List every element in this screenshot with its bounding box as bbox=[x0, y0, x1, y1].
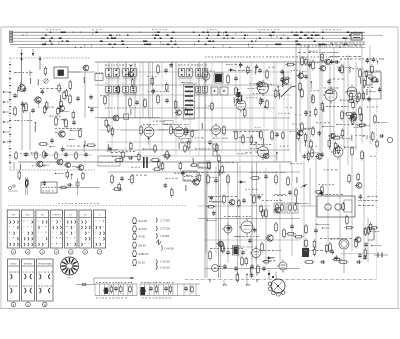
svg-text:4T7: 4T7 bbox=[105, 83, 108, 85]
node tun-5 bbox=[63, 119, 65, 124]
valve V15 bbox=[210, 123, 221, 137]
capacitor C7 bbox=[169, 63, 173, 68]
svg-text:AM: AM bbox=[26, 214, 29, 217]
svg-text:EABC 80: EABC 80 bbox=[139, 253, 150, 256]
svg-text:EF 89: EF 89 bbox=[139, 236, 146, 239]
capacitor C6 bbox=[90, 107, 94, 112]
resistor R104 bbox=[370, 226, 379, 229]
resistor R5 bbox=[65, 118, 68, 129]
lower centre vertical wiring bbox=[206, 163, 292, 266]
anode bend wire bbox=[281, 86, 296, 97]
coil L27 bbox=[240, 95, 243, 101]
mid rail bbox=[95, 84, 292, 86]
text row above main bbox=[205, 56, 338, 59]
resistor R3 bbox=[22, 104, 25, 113]
legend valve ECC 85 bbox=[133, 217, 148, 223]
bottom rail centre bbox=[205, 267, 300, 269]
coil L3 bbox=[83, 140, 86, 146]
node bel-5 bbox=[246, 274, 248, 281]
dark blob lc bbox=[233, 246, 239, 256]
resistor R37 bbox=[260, 130, 263, 140]
text above dashed bbox=[58, 202, 99, 205]
wire tuner out bbox=[68, 72, 95, 118]
legend code C 57 008 bbox=[156, 226, 170, 231]
resistor R61 bbox=[374, 114, 377, 124]
resistor R91 bbox=[222, 244, 225, 254]
trimmer C3 bbox=[44, 79, 48, 83]
label if2-16 bbox=[159, 128, 168, 131]
left edge terminals bbox=[3, 91, 9, 143]
coil L28 bbox=[282, 72, 285, 78]
legend code C 77 800 bbox=[156, 218, 170, 223]
resistor R14 bbox=[185, 107, 188, 116]
transistor Q8 bbox=[296, 73, 303, 79]
node ctr-11 bbox=[277, 86, 279, 92]
svg-text:EM 80: EM 80 bbox=[139, 244, 147, 247]
wire rlo-19 bbox=[316, 224, 329, 225]
wire rt-66 bbox=[309, 51, 317, 52]
capacitor C26 bbox=[290, 224, 294, 229]
long wires centre bbox=[240, 62, 296, 162]
node rt-64 bbox=[377, 61, 379, 65]
IF ceramic filter ladder bbox=[184, 84, 195, 119]
capacitor C16 bbox=[317, 131, 321, 136]
resistor R62 bbox=[169, 285, 172, 294]
node ctr2-2 bbox=[255, 142, 257, 149]
driver transformer box bbox=[183, 171, 197, 181]
resistor R108 bbox=[369, 222, 372, 232]
capacitor C26 bbox=[163, 183, 167, 188]
resistor R55 bbox=[305, 224, 308, 235]
label loc-25 bbox=[245, 188, 257, 191]
resistor R41 bbox=[275, 174, 278, 185]
resistor R32 bbox=[259, 97, 262, 106]
twin socket circle bbox=[212, 265, 219, 272]
coil L13 bbox=[278, 93, 281, 99]
transistor Q3 bbox=[174, 110, 181, 116]
resistor R111 bbox=[26, 178, 29, 187]
main band vertical wiring bbox=[98, 62, 288, 162]
switch strip left terminal block bbox=[10, 31, 13, 42]
resistor R39 bbox=[227, 174, 230, 185]
resistor R68 bbox=[332, 136, 342, 139]
valve V6 bbox=[323, 87, 337, 104]
resistor R16 bbox=[174, 100, 177, 110]
label mid-15 bbox=[131, 166, 139, 169]
coil L19 bbox=[348, 67, 351, 73]
resistor R11 bbox=[144, 98, 147, 109]
capacitor C34 bbox=[184, 286, 188, 291]
resistor R83 bbox=[286, 233, 296, 236]
legend valve EABC 80 bbox=[133, 250, 149, 256]
resistor R65 bbox=[59, 186, 68, 189]
capacitor C36 bbox=[67, 183, 72, 187]
coil L32 bbox=[295, 196, 298, 202]
IF transformer T1 bbox=[105, 65, 120, 80]
wire tun-40 bbox=[88, 107, 98, 108]
resistor R99 bbox=[367, 226, 370, 235]
resistor R82 bbox=[207, 205, 216, 208]
resistor R106 bbox=[346, 215, 349, 225]
capacitor C10 bbox=[185, 129, 189, 134]
resistor R75 bbox=[153, 168, 162, 171]
resistor R100 bbox=[332, 258, 342, 261]
filter box bbox=[287, 203, 298, 213]
coil L5 bbox=[34, 126, 37, 132]
resistor R1 bbox=[63, 90, 66, 100]
resistor R23 bbox=[242, 134, 245, 145]
resistor R40 bbox=[250, 177, 261, 180]
resistor R25 bbox=[107, 124, 110, 133]
label loc-4 bbox=[250, 193, 263, 196]
strip labels bbox=[46, 29, 364, 46]
capacitor C20 bbox=[327, 79, 331, 84]
capacitor C9 bbox=[234, 76, 238, 81]
mode switch box PHONOGRAM bbox=[37, 259, 54, 307]
resistor R24 bbox=[271, 130, 274, 141]
IF transformer T6 bbox=[122, 83, 137, 96]
strip dark part 1 bbox=[104, 288, 108, 294]
bottom strip lead bbox=[76, 283, 95, 285]
wire blt-11 bbox=[55, 173, 64, 174]
coil L22 bbox=[311, 95, 314, 101]
wire rt-54 bbox=[370, 91, 376, 92]
antenna input arrows bbox=[20, 56, 41, 84]
resistor R47 bbox=[275, 222, 278, 233]
label if2-3 bbox=[213, 137, 228, 140]
resistor R3 bbox=[69, 94, 72, 105]
transistor Q14 bbox=[256, 82, 263, 88]
preamp box bbox=[41, 182, 57, 193]
capacitor C18 bbox=[350, 114, 354, 119]
wire rlo-24 bbox=[371, 245, 382, 246]
resistor R6 bbox=[43, 105, 46, 115]
tuner bottom parts bbox=[38, 138, 54, 159]
resistor R52 bbox=[311, 148, 314, 159]
resistor R25 bbox=[301, 56, 304, 67]
label rt-40 bbox=[305, 114, 311, 117]
transistor Q4 bbox=[127, 71, 134, 77]
label tun-0 bbox=[57, 118, 63, 121]
rail lc3 bbox=[205, 239, 300, 241]
valve V9 bbox=[239, 219, 253, 236]
resistor R56 bbox=[352, 101, 355, 110]
capacitor C16 bbox=[304, 110, 308, 115]
resistor R48 bbox=[321, 102, 324, 112]
resistor R102 bbox=[307, 151, 310, 161]
resistor R95 bbox=[364, 227, 367, 236]
node tun-28 bbox=[38, 100, 40, 108]
IF rail lower bbox=[95, 117, 160, 119]
resistor R17 bbox=[151, 76, 154, 86]
switch strip right box S1 bbox=[351, 33, 362, 40]
elbow wiring right bbox=[358, 228, 374, 260]
capacitor C2 bbox=[89, 94, 93, 99]
capacitor C2 bbox=[31, 108, 35, 113]
wire rt-1 bbox=[377, 122, 387, 123]
resistor R26 bbox=[312, 60, 315, 71]
resistor R13 bbox=[227, 74, 230, 85]
resistor R10 bbox=[129, 97, 132, 108]
coil L2 bbox=[19, 82, 22, 88]
wire rt-15 bbox=[322, 126, 334, 127]
resistor R28 bbox=[187, 140, 190, 150]
resistor R15 bbox=[170, 125, 173, 136]
label loc-8 bbox=[264, 259, 276, 262]
valve V2 bbox=[172, 125, 184, 140]
svg-text:EL 84: EL 84 bbox=[139, 262, 146, 265]
capacitor C23 bbox=[264, 174, 268, 179]
svg-text:ECH 81: ECH 81 bbox=[139, 228, 148, 231]
resistor R42 bbox=[287, 176, 290, 187]
below-line lamp 1 bbox=[223, 280, 227, 286]
resistor R38 bbox=[299, 82, 302, 92]
oscillator coil L2 bbox=[59, 95, 62, 108]
capacitor C33 bbox=[164, 286, 168, 291]
tuner label bbox=[14, 72, 32, 121]
svg-text:STEREO: STEREO bbox=[24, 263, 33, 265]
resistor R52 bbox=[350, 91, 353, 101]
transistor Q17 bbox=[228, 199, 235, 205]
svg-text:C 30 002: C 30 002 bbox=[160, 266, 170, 269]
resistor R60 bbox=[371, 64, 374, 74]
svg-text:MONO: MONO bbox=[10, 263, 17, 265]
svg-text:4T7: 4T7 bbox=[178, 65, 181, 67]
labels lower centre bbox=[208, 196, 282, 237]
capacitor C21 bbox=[120, 176, 124, 181]
diode D3 bbox=[266, 256, 274, 259]
mains row bbox=[304, 260, 361, 264]
resistor R8 bbox=[157, 64, 160, 75]
capacitor C27 bbox=[226, 250, 230, 255]
wire rlo-30 bbox=[311, 152, 319, 153]
resistor R46 bbox=[304, 133, 307, 143]
legend bracket code bbox=[156, 240, 174, 251]
capacitor C20 bbox=[128, 156, 133, 160]
resistor R1 bbox=[14, 106, 17, 117]
switch table column STEREO bbox=[50, 210, 62, 254]
wire rt-17 bbox=[344, 147, 356, 148]
wires right mid bbox=[330, 62, 356, 150]
detector boxes bbox=[211, 87, 228, 95]
motor circle bbox=[339, 239, 349, 273]
node rt-61 bbox=[311, 81, 313, 89]
edge terminals bbox=[9, 64, 11, 163]
resistor R67 bbox=[321, 52, 324, 62]
wire loc-16 bbox=[295, 203, 309, 204]
label ctr-9 bbox=[248, 87, 255, 90]
resistor R43 bbox=[365, 70, 368, 79]
resistor R105 bbox=[313, 239, 316, 249]
resistor R107 bbox=[321, 185, 324, 195]
label row tuner bbox=[40, 88, 82, 129]
label ctr2-8 bbox=[280, 145, 289, 148]
speaker cap C19 bbox=[379, 134, 393, 142]
resistor R72 bbox=[179, 161, 182, 170]
IF transformer T4 bbox=[195, 65, 208, 80]
node tun-32 bbox=[83, 145, 85, 152]
capacitor C23 bbox=[236, 98, 240, 103]
capacitor C12 bbox=[280, 77, 284, 82]
label if2-7 bbox=[195, 137, 204, 140]
switch contacts left bbox=[8, 185, 18, 191]
IF transformer T7 bbox=[195, 83, 208, 96]
labels right lower bbox=[304, 238, 352, 251]
strip labels2 bbox=[96, 282, 174, 298]
resistor R92 bbox=[364, 248, 367, 258]
resistor R44 bbox=[362, 91, 365, 100]
transistor Q1 bbox=[17, 85, 25, 92]
coil L34 bbox=[363, 228, 366, 234]
switch table column AM bbox=[22, 210, 34, 254]
resistor R57 bbox=[334, 141, 337, 150]
label loc-11 bbox=[239, 246, 252, 249]
label rt-4 bbox=[367, 106, 379, 109]
detector label bbox=[226, 63, 242, 66]
resistor R16 bbox=[223, 125, 226, 136]
resistor R69 bbox=[282, 77, 291, 80]
IF strip wiring bbox=[109, 62, 205, 118]
resistor R58 bbox=[354, 112, 357, 121]
capacitor C18 bbox=[372, 57, 376, 62]
resistor R10 bbox=[57, 107, 60, 116]
detector transformer dark box bbox=[214, 73, 223, 83]
coil L14 bbox=[281, 81, 284, 87]
resistor R40 bbox=[376, 139, 379, 148]
right bottom wires bbox=[368, 72, 381, 262]
coil L1 bbox=[37, 79, 40, 85]
resistor R63 bbox=[328, 138, 331, 148]
coil L35 bbox=[19, 164, 22, 170]
wires head bbox=[300, 168, 317, 206]
resistor R89 bbox=[245, 257, 248, 266]
dark box centre bbox=[237, 92, 241, 97]
valve V14 bbox=[277, 260, 287, 273]
label if2-22 bbox=[119, 150, 136, 153]
node ctr3-0 bbox=[267, 85, 269, 91]
label mid-5 bbox=[128, 178, 134, 181]
capacitor C25 bbox=[181, 170, 185, 175]
label if2-2 bbox=[195, 147, 210, 150]
wire rlo-25 bbox=[322, 227, 330, 228]
label blt-2 bbox=[32, 164, 46, 167]
capacitor C14 bbox=[338, 67, 342, 72]
coil L11 bbox=[277, 90, 280, 96]
svg-text:C 44 008: C 44 008 bbox=[164, 248, 174, 251]
transistor Q21 bbox=[76, 165, 83, 171]
transistor Q9 bbox=[36, 161, 44, 167]
mode switch box MONO bbox=[8, 259, 20, 307]
preamp out wire bbox=[57, 187, 100, 189]
label rlo-22 bbox=[370, 230, 379, 233]
capacitor C14 bbox=[275, 132, 279, 137]
transistor Q11 bbox=[64, 163, 71, 168]
resistor R19 bbox=[239, 93, 242, 104]
resistor R38 bbox=[207, 174, 210, 185]
resistor R30 bbox=[111, 127, 114, 137]
resistor R35 bbox=[114, 159, 125, 162]
svg-text:PHONOGRAM: PHONOGRAM bbox=[38, 262, 52, 265]
capacitor C21 bbox=[378, 87, 382, 92]
dark box right low bbox=[302, 248, 309, 257]
svg-text:ECC 85: ECC 85 bbox=[139, 220, 148, 223]
cathode resistor R17b bbox=[184, 144, 187, 153]
resistor R113 bbox=[82, 172, 85, 181]
label tun-10 bbox=[46, 106, 54, 109]
legend valve EM 80 bbox=[133, 242, 146, 248]
resistor R76 bbox=[190, 164, 199, 167]
capacitor C32 bbox=[149, 286, 153, 291]
wire mid-0 bbox=[186, 175, 192, 176]
bottom strip rails bbox=[95, 284, 200, 296]
legend extra codes bbox=[156, 260, 170, 270]
resistor R78 bbox=[161, 162, 164, 171]
resistor R71 bbox=[118, 182, 121, 191]
svg-text:4T7: 4T7 bbox=[195, 65, 198, 67]
resistor R59 bbox=[120, 285, 123, 294]
strip dark part 2 bbox=[141, 287, 146, 295]
capacitor C11 bbox=[208, 140, 212, 145]
resistor R24 bbox=[105, 118, 108, 128]
chassis rail bbox=[18, 161, 292, 163]
label if2-18 bbox=[111, 151, 122, 154]
svg-text:PU: PU bbox=[69, 215, 72, 217]
resistor R33 bbox=[285, 63, 295, 66]
label blt-6 bbox=[66, 165, 81, 168]
transistor Q20 bbox=[315, 154, 322, 160]
resistor R13 bbox=[211, 101, 214, 111]
resistor R88 bbox=[238, 199, 241, 208]
capacitor C32 bbox=[227, 225, 231, 230]
wire loc-27 bbox=[268, 257, 275, 258]
node ctr2-5 bbox=[276, 152, 278, 160]
label rt-3 bbox=[352, 67, 363, 70]
labels centre bbox=[233, 70, 271, 145]
label loc-5 bbox=[221, 161, 234, 164]
supply rail bbox=[100, 117, 290, 119]
resistor R49 bbox=[209, 250, 212, 261]
capacitor C28 bbox=[212, 211, 216, 216]
transistor Q18 bbox=[354, 237, 361, 243]
wire blt-9 bbox=[42, 164, 50, 165]
capacitor C22 bbox=[352, 111, 356, 116]
capacitor C25 bbox=[248, 238, 252, 243]
resistor R27 bbox=[301, 88, 304, 99]
IF small box bbox=[124, 114, 129, 119]
wire rt-16 bbox=[340, 99, 347, 100]
resistor R31 bbox=[246, 65, 249, 74]
resistor R22 bbox=[266, 99, 269, 110]
label rlo-31 bbox=[367, 195, 377, 198]
capacitor C12 bbox=[258, 68, 262, 73]
label rlo-33 bbox=[324, 168, 338, 171]
valve V5 bbox=[256, 144, 269, 160]
capacitor C28 bbox=[320, 152, 324, 157]
capacitor C17 bbox=[334, 60, 339, 64]
label tun-24 bbox=[49, 115, 61, 118]
output transformer box bbox=[274, 203, 285, 213]
mode switch box STEREO bbox=[22, 259, 35, 307]
capacitor C7 bbox=[165, 98, 169, 103]
label rlo-8 bbox=[318, 183, 334, 186]
valve V7 bbox=[345, 85, 357, 100]
resistor R50 bbox=[241, 256, 244, 267]
coil L24 bbox=[359, 78, 362, 84]
valve V11 bbox=[331, 145, 343, 160]
switch contacts on strip bbox=[23, 32, 356, 49]
capacitor C27 bbox=[257, 194, 261, 199]
resistor R48 bbox=[283, 228, 286, 239]
